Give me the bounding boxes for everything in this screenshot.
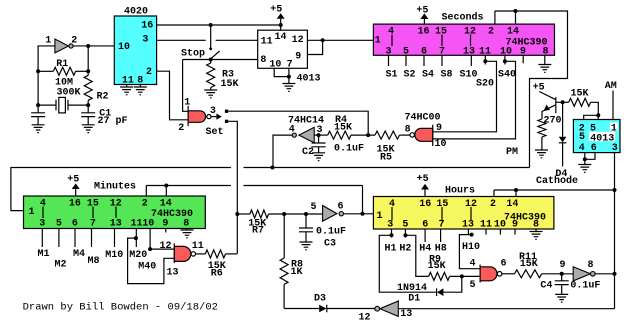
svg-text:S4: S4 <box>422 70 434 81</box>
svg-text:1: 1 <box>184 98 190 109</box>
svg-text:13: 13 <box>462 220 474 231</box>
svg-text:14: 14 <box>160 199 172 210</box>
svg-text:Hours: Hours <box>445 185 475 196</box>
wire R8 to D3 <box>284 308 319 310</box>
svg-text:PM: PM <box>506 147 518 158</box>
svg-text:1K: 1K <box>290 267 302 278</box>
svg-text:S1: S1 <box>385 70 397 81</box>
wire stop junction to 4013 pin 8 <box>183 59 258 61</box>
wire D1 to R9 junction <box>443 276 461 292</box>
node M40 takeoff <box>148 247 152 251</box>
svg-text:9: 9 <box>559 260 565 271</box>
wire S40 to 74HC00 pin 10 <box>433 61 516 139</box>
wire Seconds output stub S2 <box>405 55 407 66</box>
wire Minutes pin 2 up <box>145 186 147 197</box>
svg-text:0.1uF: 0.1uF <box>570 281 600 292</box>
svg-text:9: 9 <box>512 220 518 231</box>
svg-text:C4: C4 <box>540 281 552 292</box>
node 74HC14 input tap <box>271 166 275 170</box>
svg-text:C3: C3 <box>324 239 336 250</box>
wire R3 bottom lead <box>210 88 212 91</box>
wire C4 top lead <box>561 274 563 281</box>
svg-text:1: 1 <box>45 36 51 47</box>
capacitor C4 <box>555 281 569 285</box>
wire Minutes output stub M2 <box>58 229 60 248</box>
wire +5 stem (Hours) <box>424 190 426 197</box>
wire 270 to ground <box>541 137 543 150</box>
capacitor left of crystal <box>31 113 45 117</box>
svg-text:10: 10 <box>142 219 154 230</box>
wire Minutes pin 10 stub (M40) <box>149 229 151 250</box>
svg-text:4013: 4013 <box>296 74 320 85</box>
node Seconds pin 14 top junction <box>514 9 518 13</box>
wire Seconds output stub S4 <box>423 55 425 66</box>
svg-text:+5: +5 <box>417 174 429 185</box>
wire H2 to R9 <box>405 235 428 276</box>
wire R2 bottom lead <box>87 100 89 105</box>
svg-text:5: 5 <box>469 280 475 291</box>
svg-text:4: 4 <box>388 26 394 37</box>
ground (C2) <box>312 153 325 161</box>
svg-text:13: 13 <box>400 309 412 320</box>
wire left cap to ground <box>37 117 39 125</box>
resistor R5 <box>375 131 399 139</box>
node stop switch pivot <box>209 47 212 50</box>
node M20 takeoff <box>134 236 138 240</box>
wire Hours internal 12-13 <box>470 207 472 220</box>
svg-text:4: 4 <box>289 124 295 135</box>
wire M20 loop to NAND pin 13 <box>128 238 175 284</box>
IC 74HC390 Minutes <box>24 196 206 229</box>
wire Minutes output stub M8 <box>91 229 93 248</box>
supply +5 arrow (top rail) <box>277 13 285 19</box>
wire C1 to ground <box>87 117 89 125</box>
svg-text:8: 8 <box>533 220 539 231</box>
wire Seconds pin 2 up <box>494 11 496 24</box>
node crystal left junction <box>36 103 40 107</box>
svg-text:R2: R2 <box>96 92 108 103</box>
wire +5 stem (Minutes) <box>75 189 77 196</box>
ground (Minutes pin 8) <box>181 230 194 238</box>
wire crystal right lead <box>68 104 88 106</box>
node U1 output junction <box>86 44 90 48</box>
resistor R4 <box>328 131 351 139</box>
svg-text:2: 2 <box>71 36 77 47</box>
svg-text:M20: M20 <box>129 250 147 261</box>
svg-text:R5: R5 <box>380 153 392 164</box>
wire M40 to NAND pin 12 <box>150 248 174 250</box>
wire junction to 4013 pin 2 <box>584 115 599 119</box>
wire Hours stub H10 <box>467 229 469 235</box>
wire Hours pin 9 stub <box>514 229 516 235</box>
svg-text:M8: M8 <box>87 256 99 267</box>
svg-text:R1: R1 <box>56 59 68 70</box>
wire hr NAND output to R11 <box>502 273 515 275</box>
svg-text:7: 7 <box>287 59 293 70</box>
svg-text:6: 6 <box>422 220 428 231</box>
wire S20 to 74HC00 pin 9 <box>433 61 497 132</box>
wire switch gap to 4013 pin 11 <box>216 39 258 41</box>
svg-text:9: 9 <box>436 123 442 134</box>
IC 74HC390 Hours <box>373 197 554 230</box>
node S20 takeoff <box>483 59 487 63</box>
wire C2 top lead <box>318 135 320 143</box>
svg-text:10: 10 <box>494 220 506 231</box>
wire Hours stub H4 <box>424 229 426 242</box>
wire R7 to R8 node <box>269 213 306 215</box>
wire +5 stem (top rail) <box>280 19 282 25</box>
wire R7 left lead <box>237 213 250 215</box>
supply +5 arrow (Seconds) <box>420 13 428 19</box>
wire Hours pin1 net up to Minutes rail <box>362 186 364 214</box>
svg-text:1: 1 <box>376 211 382 222</box>
wire stop junction down to Set gate input 1 <box>183 60 189 112</box>
svg-text:2: 2 <box>178 123 184 134</box>
node R7 tap on 237 rail <box>235 212 239 216</box>
svg-text:H1: H1 <box>384 243 396 254</box>
wire inverter 8 output to right rail <box>595 273 614 275</box>
ground (C1) <box>82 125 95 133</box>
svg-text:9: 9 <box>162 219 168 230</box>
resistor R3 <box>207 63 215 88</box>
wire Set gate output <box>211 116 216 118</box>
svg-text:D3: D3 <box>314 294 326 305</box>
wire AM net to 4013 pin 1 <box>612 91 614 120</box>
wire Hours pin 8 ground stub <box>535 229 537 232</box>
wire 4013 pin 12 to Seconds pin 1 <box>307 39 373 41</box>
wire D4 anode lead <box>562 102 564 136</box>
wire junction down to R1 right <box>87 46 89 71</box>
nand gate 74HC00 (body) <box>415 128 433 141</box>
node R1 right junction <box>86 69 90 73</box>
wire long rail (right of hop) <box>244 167 530 169</box>
svg-text:R7: R7 <box>252 226 264 237</box>
wire Minutes pin 14 up <box>165 186 167 197</box>
wire 4020 pin 2 to Set gate input 2 <box>157 71 189 120</box>
svg-text:13: 13 <box>463 46 475 57</box>
node Hours 2/14 tap on right rail <box>613 188 617 192</box>
svg-text:11: 11 <box>261 36 273 47</box>
wire min NAND output to R6 <box>196 253 206 255</box>
wire Minutes output stub M4 <box>74 229 76 248</box>
node R8 tap <box>282 212 286 216</box>
svg-text:3: 3 <box>142 35 148 46</box>
wire C1 top lead <box>87 105 89 113</box>
svg-text:Drawn by Bill Bowden - 09/18/0: Drawn by Bill Bowden - 09/18/02 <box>23 302 218 314</box>
inverter 9-8 (triangle) <box>573 267 590 281</box>
svg-text:9: 9 <box>295 52 301 63</box>
svg-text:16: 16 <box>141 21 153 32</box>
svg-text:12: 12 <box>159 241 171 252</box>
wire long rail to Minutes pin 1 (left) <box>11 168 231 211</box>
supply +5 arrow (Minutes) <box>72 183 80 189</box>
svg-text:S2: S2 <box>403 70 415 81</box>
wire Minutes internal 12-13 <box>115 207 117 219</box>
wire Seconds pin 11 stub <box>484 55 486 64</box>
node R9/D1 junction <box>460 274 464 278</box>
svg-text:27 pF: 27 pF <box>97 116 127 127</box>
svg-text:7: 7 <box>438 220 444 231</box>
resistor R1 <box>53 67 75 75</box>
svg-text:6: 6 <box>72 219 78 230</box>
svg-text:15K: 15K <box>570 88 588 99</box>
inverter 12-13 (triangle) <box>380 301 398 316</box>
wire inverter 6 output to Hours pin 1 <box>344 213 374 215</box>
contact Set switch top <box>225 110 228 113</box>
wire Seconds pin 9 stub <box>522 55 524 63</box>
inverter U1 (oscillator) <box>55 39 69 53</box>
wire Minutes output stub M1 <box>41 229 43 248</box>
svg-text:S40: S40 <box>498 70 516 81</box>
svg-text:4020: 4020 <box>124 6 148 17</box>
node Minutes pin 14 junction <box>164 184 168 188</box>
svg-text:15K: 15K <box>220 79 238 90</box>
wire inverter 13 to right rail <box>398 308 614 310</box>
node 4013 pins 7/10 junction <box>287 75 291 79</box>
svg-text:6: 6 <box>591 143 597 154</box>
svg-text:M1: M1 <box>37 249 49 260</box>
svg-text:S8: S8 <box>440 70 452 81</box>
svg-text:16: 16 <box>69 199 81 210</box>
inverter 74HC14 (triangle) <box>299 127 314 143</box>
wire Hours pin 10 stub <box>499 229 501 235</box>
node +5 / 4013 pin 14 junction <box>279 23 283 27</box>
wire 15K to 4013 pin 5 <box>591 102 599 119</box>
svg-text:8: 8 <box>183 219 189 230</box>
wire transistor base lead <box>556 101 569 103</box>
IC 4020 counter <box>114 16 156 85</box>
wire Seconds pin 8 ground stub <box>544 55 546 64</box>
resistor R6 <box>205 250 225 258</box>
resistor 15K (base) <box>569 98 591 106</box>
svg-text:H8: H8 <box>435 243 447 254</box>
node Hours pin 14 junction <box>514 188 518 192</box>
wire R9 to NAND pin 5 <box>450 275 481 277</box>
svg-text:AM: AM <box>605 81 617 92</box>
wire transistor emitter lead <box>542 105 556 119</box>
wire 4020 pin 16 to +5 rail <box>157 24 281 26</box>
nand gate U-min (body) <box>174 246 191 261</box>
node right rail / inverter 8 junction <box>613 272 617 276</box>
svg-text:8: 8 <box>260 55 266 66</box>
svg-text:15K: 15K <box>428 261 446 272</box>
wire Set top contact to R4/R5 junction <box>228 111 368 135</box>
svg-text:M4: M4 <box>73 249 85 260</box>
wire 74HC14 output to C2 node <box>314 134 318 136</box>
wire R11 to inverter 9 <box>542 273 574 275</box>
wire R5 to 74HC00 output bubble <box>399 134 409 136</box>
ground (left cap) <box>32 125 45 133</box>
svg-text:H4: H4 <box>419 243 431 254</box>
ground (R3) <box>204 90 217 98</box>
wire 4013 pin 14 stub <box>280 25 282 30</box>
svg-text:14: 14 <box>506 199 518 210</box>
svg-text:Stop: Stop <box>181 49 205 60</box>
node S40 takeoff <box>503 59 507 63</box>
svg-text:6: 6 <box>500 259 506 270</box>
nand gate 74HC00 (input bar) <box>432 125 434 146</box>
svg-text:13: 13 <box>110 219 122 230</box>
node stop-switch top junction <box>209 23 213 27</box>
node crystal right junction <box>86 103 90 107</box>
wire 4013b pin 3 down the right rail <box>614 153 616 274</box>
wire Hours pin 11 stub <box>485 229 487 235</box>
wire Minutes pin 11 stub (M20) <box>135 229 137 248</box>
svg-text:2: 2 <box>146 67 152 78</box>
wire 4013 pin 10 to ground net <box>274 68 289 76</box>
svg-text:M2: M2 <box>54 259 66 270</box>
IC 4013 flip-flop (right) <box>573 120 620 153</box>
node C3 tap <box>304 212 308 216</box>
svg-text:16: 16 <box>417 26 429 37</box>
node H10 takeoff <box>470 233 474 237</box>
svg-text:S10: S10 <box>459 70 477 81</box>
wire +5 stem (Seconds) <box>423 19 425 24</box>
wire Minutes 2/14 rail (left of hop) <box>146 185 231 187</box>
node H1 takeoff <box>390 233 394 237</box>
wire H10 to NAND pin 4 <box>459 235 480 269</box>
wire R8 bottom lead <box>283 284 285 308</box>
svg-text:+5: +5 <box>533 82 545 93</box>
wire Hours 2/14 rail to right rail <box>494 189 615 191</box>
wire Set bottom contact down the 237 rail <box>228 121 237 253</box>
nand gate U-hr (input bar) <box>479 265 481 283</box>
svg-text:11: 11 <box>130 219 142 230</box>
wire 4013 pin 9 to pin 12 net <box>307 40 322 54</box>
wire Minutes internal 15-7 <box>92 207 94 219</box>
wire Seconds internal 12-13 <box>470 35 472 47</box>
svg-text:0.1uF: 0.1uF <box>334 143 364 154</box>
wire Minutes 2/14 rail (right of hop) <box>244 185 363 187</box>
white patch (4013b pin 1) <box>610 123 618 132</box>
svg-text:11: 11 <box>192 241 204 252</box>
svg-text:11: 11 <box>122 76 134 87</box>
node C4 tap <box>560 272 564 276</box>
ground (Seconds pin 8) <box>538 65 551 73</box>
svg-text:74HC390: 74HC390 <box>504 212 546 223</box>
wire C2 to ground <box>318 147 320 153</box>
svg-text:14: 14 <box>274 32 286 43</box>
wire C3 top lead <box>305 214 307 228</box>
wire Hours pin 2 up <box>493 190 495 197</box>
svg-text:12: 12 <box>292 35 304 46</box>
svg-text:2: 2 <box>490 199 496 210</box>
svg-text:H10: H10 <box>462 242 480 253</box>
crystal Y1 <box>56 100 68 111</box>
wire Seconds output stub S10 <box>470 55 472 66</box>
transistor Q1 base bar <box>555 97 557 113</box>
wire Seconds output stub S8 <box>441 55 443 66</box>
supply +5 arrow (Hours) <box>421 184 429 190</box>
wire Hours internal 4-3 <box>391 207 393 220</box>
node R1 left junction <box>36 69 40 73</box>
svg-text:R6: R6 <box>211 269 223 280</box>
capacitor C3 <box>299 228 313 232</box>
wire D3 to inverter 12 bubble <box>327 308 375 310</box>
ground (Hours pin 8) <box>530 232 543 240</box>
diode D1 <box>437 288 443 296</box>
wire Hours stub H8 <box>440 229 442 242</box>
svg-text:10: 10 <box>500 46 512 57</box>
wire C3 to ground <box>305 232 307 242</box>
ground (C3) <box>300 242 313 250</box>
wire Seconds internal 15-7 <box>441 35 443 47</box>
svg-text:0.1uF: 0.1uF <box>316 227 346 238</box>
transistor Q1 emitter arrow <box>544 105 550 112</box>
nand gate Set (input bar) <box>187 106 189 126</box>
wire R6 to 237 rail <box>226 253 238 255</box>
wire Hours pin 14 up <box>515 190 517 197</box>
wire crystal left lead <box>38 104 56 106</box>
nand gate U-hr (body) <box>480 267 497 281</box>
wire Minutes output stub M10 <box>114 229 116 248</box>
ground (4020 pin 8) <box>134 87 147 95</box>
svg-text:2: 2 <box>488 26 494 37</box>
node R4/R5 junction <box>366 133 370 137</box>
svg-text:4: 4 <box>469 259 475 270</box>
svg-text:7: 7 <box>90 219 96 230</box>
svg-text:8: 8 <box>405 124 411 135</box>
svg-text:10: 10 <box>434 139 446 150</box>
node Hours pin 1 junction <box>361 212 365 216</box>
resistor R11 <box>515 270 542 278</box>
svg-text:3: 3 <box>39 219 45 230</box>
wire ground stub (4013b) <box>584 159 586 164</box>
resistor 270 <box>538 119 546 137</box>
svg-text:10: 10 <box>118 42 130 53</box>
wire 4013b pin 6 to ground net <box>585 153 595 160</box>
contact Set switch bottom <box>225 120 228 123</box>
svg-text:5: 5 <box>56 219 62 230</box>
diode D3 <box>319 305 326 313</box>
svg-text:300K: 300K <box>56 87 80 98</box>
nand gate Set (body) <box>188 111 206 123</box>
node stop switch bottom junction <box>209 58 213 62</box>
wire Seconds internal 4-3 <box>391 35 393 47</box>
svg-text:15K: 15K <box>520 259 538 270</box>
white patch (4013b name) <box>589 132 615 141</box>
svg-text:3: 3 <box>612 143 618 154</box>
svg-text:+5: +5 <box>67 174 79 185</box>
ground (270) <box>535 150 548 158</box>
wire Hours stub H2 <box>404 229 406 238</box>
wire C2 node to R4 <box>319 134 328 136</box>
wire U1 input from left rail <box>38 46 55 113</box>
wire right rail bottom segment <box>614 274 616 309</box>
ground (4013 pins 7/10) <box>282 84 295 92</box>
node 4013 pin 2/5 junction <box>596 113 600 117</box>
wire R1 right lead <box>76 70 89 72</box>
wire R4 to junction <box>351 134 375 136</box>
wire C3 node to inverter 5 <box>306 213 323 215</box>
svg-text:13: 13 <box>166 268 178 279</box>
node 4013b pins 4/6 junction <box>583 157 587 161</box>
svg-text:M40: M40 <box>138 261 156 272</box>
arrow Set switch pole <box>216 114 221 120</box>
svg-text:Set: Set <box>205 127 223 138</box>
wire Minutes pin 8 ground stub <box>186 229 188 231</box>
wire D4 cathode lead <box>562 143 564 167</box>
wire 4013 pin 7 to ground <box>288 68 290 83</box>
wire Minutes pin 9 stub <box>165 229 167 233</box>
svg-text:4: 4 <box>579 143 585 154</box>
capacitor C1 <box>81 113 95 117</box>
svg-text:+5: +5 <box>416 5 428 16</box>
svg-text:S20: S20 <box>476 79 494 90</box>
node 4013 pins 12/9 junction <box>321 38 325 42</box>
svg-text:6: 6 <box>337 202 343 213</box>
wire C4 to ground <box>561 285 563 295</box>
